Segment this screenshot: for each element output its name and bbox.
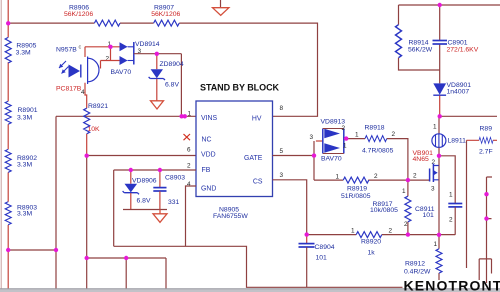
wire bottom-left net2 [87, 258, 166, 289]
wire FB run [114, 170, 196, 246]
wire gate vertical [313, 141, 315, 180]
svg-text:101: 101 [316, 255, 328, 262]
svg-text:1: 1 [355, 132, 359, 139]
svg-text:3.3M: 3.3M [17, 211, 32, 218]
diode VD8913 [316, 129, 344, 154]
svg-text:VDD: VDD [201, 151, 216, 158]
svg-text:6.8V: 6.8V [165, 81, 179, 88]
svg-text:c: c [79, 45, 82, 51]
svg-text:2: 2 [413, 173, 417, 180]
chip N8905 FAN6755W [196, 101, 273, 197]
svg-text:L8911: L8911 [448, 137, 467, 144]
wire left rail top [7, 0, 9, 23]
mosfet VB901 [430, 156, 439, 235]
svg-text:C8903: C8903 [165, 174, 185, 181]
svg-text:ZD8904: ZD8904 [160, 61, 184, 68]
wire HV node right [440, 115, 497, 117]
svg-text:2: 2 [342, 125, 346, 132]
resistor R8912 [438, 235, 440, 280]
svg-text:4.7R/0805: 4.7R/0805 [362, 148, 394, 155]
svg-text:2: 2 [374, 173, 378, 180]
arrow marker top [220, 0, 222, 8]
svg-text:R89: R89 [480, 125, 493, 132]
wire bottom-left net1 [8, 116, 56, 289]
optocoupler N957B [59, 57, 99, 85]
zener ZD8904 [149, 54, 165, 101]
svg-text:0.4R/2W: 0.4R/2W [404, 268, 431, 275]
grey bottom band [0, 289, 500, 292]
svg-text:N957B: N957B [56, 46, 77, 53]
resistor R8905 [5, 37, 11, 63]
svg-text:GND: GND [201, 185, 216, 192]
wire CS path [273, 180, 307, 235]
svg-text:1: 1 [402, 188, 406, 195]
svg-text:6.8V: 6.8V [137, 198, 151, 205]
svg-text:PC817B: PC817B [56, 85, 82, 92]
resistor R8920 [356, 232, 382, 238]
svg-text:3: 3 [280, 172, 284, 179]
svg-text:NC: NC [202, 137, 212, 144]
capacitor C8903 [153, 170, 166, 210]
capacitor C8901 [433, 41, 448, 45]
svg-text:1: 1 [433, 124, 437, 131]
svg-text:4: 4 [187, 181, 191, 188]
svg-text:1: 1 [188, 110, 192, 117]
resistor R8918 [365, 136, 387, 142]
resistor R8907 [154, 20, 180, 26]
page left border [0, 0, 2, 292]
wire FB bottom [123, 209, 167, 211]
svg-text:1: 1 [434, 241, 438, 248]
svg-text:FB: FB [202, 167, 211, 174]
svg-text:FAN6755W: FAN6755W [213, 213, 248, 220]
svg-text:R8919: R8919 [347, 185, 367, 192]
svg-text:2.7F: 2.7F [479, 148, 493, 155]
wire VDD node down [86, 156, 88, 289]
svg-text:8: 8 [280, 105, 284, 112]
wire top right bus [399, 5, 500, 83]
wire top bus to HV [8, 23, 317, 116]
wire VDD run [87, 155, 196, 157]
svg-text:2: 2 [404, 221, 408, 228]
svg-text:3.3M: 3.3M [17, 161, 32, 168]
svg-text:R8921: R8921 [88, 103, 108, 110]
wire R8921 to VDD node [86, 134, 88, 156]
svg-text:1k: 1k [368, 250, 376, 257]
wire right vertical 1 [466, 140, 468, 268]
svg-text:331: 331 [168, 199, 180, 206]
svg-text:51R/0805: 51R/0805 [341, 193, 371, 200]
NC X mark [184, 134, 191, 140]
svg-text:BAV70: BAV70 [321, 155, 342, 162]
svg-text:C8901: C8901 [448, 39, 468, 46]
svg-text:1: 1 [449, 192, 453, 199]
capacitor C8904 [299, 235, 315, 288]
resistor R8921 [84, 108, 90, 134]
svg-text:56K/2W: 56K/2W [408, 46, 433, 53]
resistor R8901 [5, 101, 11, 124]
svg-text:STAND BY BLOCK: STAND BY BLOCK [200, 83, 280, 93]
svg-text:2: 2 [106, 56, 110, 63]
svg-text:5: 5 [280, 148, 284, 155]
svg-text:10K: 10K [88, 126, 101, 133]
capacitor C8911 [439, 156, 462, 235]
wire opto collector [85, 47, 111, 57]
svg-text:VINS: VINS [201, 115, 217, 122]
svg-text:56K/1206: 56K/1206 [151, 11, 180, 18]
resistor R89 2.7F [467, 139, 498, 141]
svg-text:1n4007: 1n4007 [447, 89, 470, 96]
svg-text:GATE: GATE [244, 155, 263, 162]
svg-text:10k/0805: 10k/0805 [370, 207, 398, 214]
svg-text:101: 101 [423, 212, 435, 219]
svg-text:2: 2 [389, 228, 393, 235]
resistor R8919 [343, 177, 369, 183]
wire VINS run [56, 115, 196, 117]
wire right staple [479, 259, 491, 280]
svg-text:3.3M: 3.3M [17, 115, 32, 122]
svg-text:6: 6 [187, 147, 191, 154]
wire gate run [314, 179, 430, 181]
wire right vertical 2 [487, 177, 493, 283]
resistor R8902 [5, 149, 11, 172]
svg-text:3: 3 [431, 186, 435, 193]
svg-text:KENOTRONTV: KENOTRONTV [404, 278, 500, 292]
resistor R8914 [396, 25, 402, 58]
svg-text:HV: HV [252, 115, 262, 122]
svg-text:56K/1206: 56K/1206 [64, 11, 93, 18]
inductor L8911 [432, 116, 446, 156]
svg-text:R8920: R8920 [361, 239, 381, 246]
wire VD8913 out to R8918 [344, 139, 408, 181]
resistor R8906 [94, 20, 120, 26]
svg-text:3: 3 [310, 134, 314, 141]
svg-text:BAV70: BAV70 [111, 69, 132, 76]
svg-text:272/1.6KV: 272/1.6KV [447, 47, 479, 54]
svg-text:4: 4 [81, 89, 85, 96]
wire GND pin path [186, 186, 197, 246]
wire GATE pin [273, 155, 315, 157]
wire VD8914 anodes [101, 47, 120, 69]
svg-text:1: 1 [343, 143, 347, 150]
svg-text:2: 2 [392, 131, 396, 138]
wire VD8914 cathode to VINS [134, 54, 182, 117]
svg-text:3.3M: 3.3M [16, 50, 31, 57]
svg-text:1: 1 [336, 174, 340, 181]
svg-text:VD8906: VD8906 [132, 178, 157, 185]
resistor R8917 [407, 180, 409, 235]
svg-text:4N65: 4N65 [413, 156, 429, 163]
svg-text:R8905: R8905 [16, 43, 36, 50]
ground below C8903 [153, 210, 167, 223]
diode VD8901 [433, 83, 446, 116]
svg-text:2: 2 [187, 162, 191, 169]
diode VD8914 [120, 42, 134, 65]
resistor R8903 [5, 202, 11, 225]
wire source rail [307, 234, 456, 236]
svg-text:R8918: R8918 [365, 125, 385, 132]
wire bottom bus [114, 246, 403, 287]
svg-text:CS: CS [253, 179, 263, 186]
wire opto emitter to R8921 [85, 83, 87, 108]
wire left rail [7, 23, 9, 289]
zener VD8906 [123, 170, 139, 210]
svg-text:R8901: R8901 [18, 107, 38, 114]
ground below ZD8904 [151, 101, 164, 109]
svg-text:R8912: R8912 [405, 260, 425, 267]
svg-text:C8904: C8904 [315, 244, 335, 251]
svg-text:2: 2 [449, 217, 453, 224]
svg-text:1: 1 [351, 228, 355, 235]
